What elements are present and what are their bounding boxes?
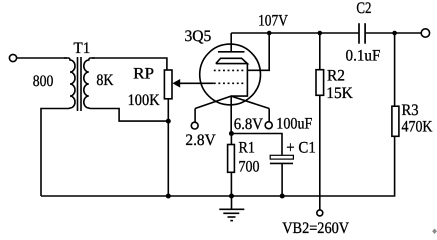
terminal 2.8V — [191, 122, 198, 129]
svg-text:800: 800 — [33, 73, 54, 90]
svg-text:100K: 100K — [128, 92, 160, 109]
transformer T1 core — [77, 57, 79, 111]
svg-text:8K: 8K — [96, 72, 114, 89]
wire R1 bottom to ground rail — [230, 172, 232, 196]
svg-text:C2: C2 — [356, 0, 371, 17]
wire RP wiper to grid — [180, 82, 214, 84]
junction node G — [166, 119, 171, 124]
wire filament right lead — [268, 109, 270, 123]
tube control grid g1 dotted — [214, 82, 246, 84]
resistor R2 leads — [319, 33, 321, 70]
potentiometer RP body — [164, 70, 172, 99]
junction node ground-R1 — [229, 194, 234, 199]
RP wiper arrow head — [172, 79, 180, 88]
transformer T1 primary winding 800 — [64, 58, 75, 109]
ground bar 1 — [219, 208, 244, 210]
terminal filament right — [265, 122, 272, 129]
svg-text:R2: R2 — [327, 67, 345, 84]
svg-text:2.8V: 2.8V — [185, 132, 216, 149]
svg-text:T1: T1 — [74, 40, 91, 57]
transformer T1 secondary winding 8K — [84, 58, 95, 109]
top rail right segment to output — [365, 32, 421, 34]
tube beam plates — [216, 58, 248, 63]
wire screen grid to 107V rail — [247, 33, 269, 70]
svg-text:15K: 15K — [326, 85, 353, 102]
wire plate lead — [230, 33, 232, 52]
ground bar 2 — [223, 212, 239, 214]
junction node rail-R2 — [318, 31, 323, 36]
wire secondary bottom to node G — [92, 109, 168, 122]
capacitor C1 positive plate — [270, 155, 293, 159]
wire C1 bottom to ground rail — [281, 163, 283, 196]
wire primary bottom to ground rail — [41, 109, 67, 197]
wire node K to R1 — [230, 134, 232, 145]
svg-text:700: 700 — [239, 159, 260, 176]
artifact mark bottom right — [432, 229, 437, 235]
svg-text:+ C1: + C1 — [286, 139, 316, 156]
svg-text:107V: 107V — [258, 13, 288, 30]
input terminal J1 — [9, 54, 16, 61]
junction node ground-C1 — [280, 194, 285, 199]
capacitor C2 plates — [358, 23, 360, 44]
tube beam plate to filament link — [231, 64, 247, 97]
tube filament — [195, 96, 269, 108]
svg-text:3Q5: 3Q5 — [185, 28, 212, 45]
wire RP bottom to ground rail — [167, 99, 169, 196]
wire filament left lead — [194, 109, 196, 123]
svg-text:VB2=260V: VB2=260V — [282, 220, 349, 237]
capacitor C1 negative plate — [270, 162, 293, 164]
wire secondary top to RP — [92, 58, 167, 70]
svg-text:R1: R1 — [239, 140, 255, 157]
svg-text:R3: R3 — [402, 102, 419, 119]
wire filament center tap down — [230, 96, 232, 133]
junction node rail-screen — [267, 31, 272, 36]
tube screen grid g2 dotted — [214, 69, 246, 71]
svg-text:RP: RP — [133, 66, 154, 83]
resistor R3 body — [392, 106, 399, 136]
svg-text:100uF: 100uF — [276, 116, 312, 133]
tube plate — [218, 51, 245, 53]
resistor R1 body — [228, 145, 235, 173]
resistor R2 body — [316, 70, 324, 96]
wire node K to C1 — [231, 134, 282, 156]
junction node rail-R3 — [392, 31, 397, 36]
junction node ground-RP — [166, 194, 171, 199]
output terminal J2 — [421, 29, 429, 37]
wire R3 bottom + ground rail — [41, 136, 395, 196]
ground stub — [231, 196, 233, 209]
svg-text:6.8V: 6.8V — [234, 116, 264, 133]
terminal VB2 — [317, 210, 323, 216]
ground bar 3 — [228, 216, 236, 218]
junction node K — [229, 131, 234, 136]
ground bar 4 — [230, 220, 233, 222]
svg-text:470K: 470K — [402, 118, 433, 135]
tube U1 3Q5 envelope — [200, 44, 261, 105]
resistor R3 lead top — [394, 33, 396, 106]
top rail 107V left segment — [231, 32, 359, 34]
svg-text:0.1uF: 0.1uF — [346, 47, 381, 64]
wire input to transformer primary — [17, 57, 67, 59]
